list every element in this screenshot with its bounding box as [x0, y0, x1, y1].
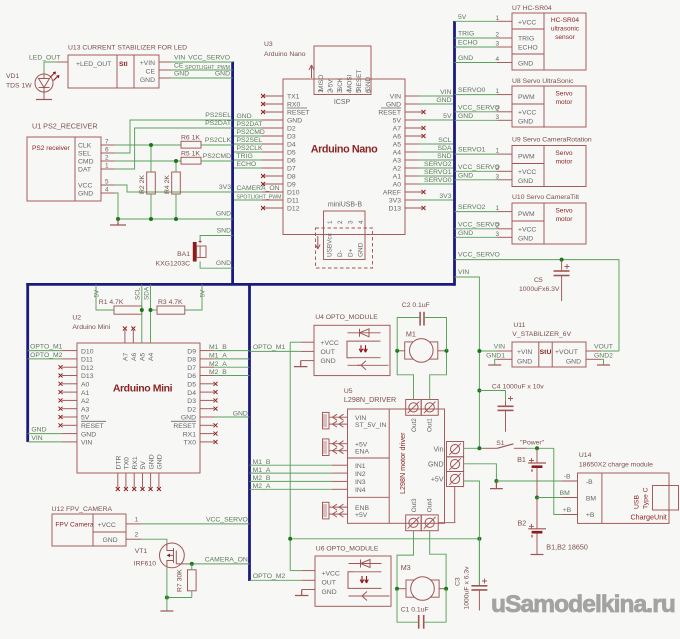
- pin D11 of U2: [62, 358, 77, 360]
- svg-text:FPV Camera: FPV Camera: [55, 522, 93, 529]
- switch S1 Power: [483, 447, 498, 449]
- svg-text:+VCC: +VCC: [518, 20, 536, 27]
- svg-text:GND: GND: [518, 178, 533, 185]
- svg-text:V_STABILIZER_6V: V_STABILIZER_6V: [512, 331, 571, 338]
- pin D9 of U3 (n.c.): [264, 183, 283, 185]
- svg-text:D8: D8: [287, 174, 296, 181]
- svg-text:KXG1203C: KXG1203C: [156, 261, 190, 268]
- svg-text:+5V: +5V: [355, 441, 368, 448]
- svg-text:4: 4: [495, 56, 499, 63]
- svg-text:SERVO2: SERVO2: [424, 161, 452, 168]
- svg-text:Servo: Servo: [555, 91, 573, 98]
- svg-text:2: 2: [328, 89, 335, 93]
- wire R3 to 5V: [185, 284, 202, 310]
- opto diode: [348, 332, 381, 334]
- svg-text:CLK: CLK: [78, 143, 92, 150]
- resistor R5 1K: [181, 157, 201, 164]
- junction B1 plus: [535, 446, 539, 450]
- svg-text:miniUSB-B: miniUSB-B: [328, 202, 363, 209]
- svg-text:HC-SR04: HC-SR04: [551, 17, 580, 24]
- svg-text:B1: B1: [517, 455, 526, 464]
- resistor R2 2K: [147, 172, 156, 194]
- pin 3: [497, 119, 512, 121]
- wire +5V screw: [464, 481, 480, 539]
- pin VIN of U13: [159, 61, 171, 63]
- svg-text:CE: CE: [146, 69, 156, 76]
- wire LED_OUT: [44, 62, 57, 74]
- svg-text:GND: GND: [566, 359, 581, 366]
- svg-text:M2_B: M2_B: [253, 475, 271, 482]
- pin D3 of U2 (n.c.): [200, 399, 214, 401]
- svg-text:C4 1000uF x 10v: C4 1000uF x 10v: [492, 384, 544, 391]
- wire VOUT: [601, 350, 619, 352]
- svg-text:GND: GND: [216, 211, 231, 218]
- wire VCC_SERVO: [455, 111, 498, 113]
- svg-text:D-: D-: [337, 250, 344, 257]
- wire from left bus: [28, 441, 62, 443]
- pin A4 of U3: [405, 151, 419, 153]
- svg-text:GND: GND: [322, 589, 337, 596]
- svg-text:D9: D9: [187, 348, 196, 355]
- pin +LED_OUT of U13: [57, 61, 68, 63]
- pin D4 of U2 (n.c.): [200, 391, 214, 393]
- junction BM: [535, 496, 539, 500]
- pin GND of U13: [159, 77, 171, 79]
- svg-text:GND: GND: [174, 71, 189, 78]
- wire SERVO0: [455, 94, 498, 96]
- svg-text:3: 3: [495, 41, 499, 48]
- svg-text:PS2CMD: PS2CMD: [203, 153, 231, 160]
- junction R4 bottom: [174, 217, 178, 221]
- svg-text:Vin: Vin: [434, 446, 444, 453]
- pin TX0 of U2 (n.c.): [125, 473, 127, 488]
- ground U4: [294, 361, 307, 367]
- svg-text:GND: GND: [436, 97, 451, 104]
- svg-text:A2: A2: [393, 166, 402, 173]
- pin TX0 of U2 (n.c.): [200, 441, 214, 443]
- junction M3 left: [395, 587, 399, 591]
- pin 2: [497, 170, 512, 172]
- svg-text:1: 1: [135, 516, 139, 523]
- pin +VOUT of U11: [586, 350, 601, 352]
- wire VCC_SERVO: [455, 228, 498, 230]
- svg-text:PS2CMD: PS2CMD: [237, 129, 265, 136]
- pin A3 of U2 (n.c.): [62, 408, 77, 410]
- svg-text:ECHO: ECHO: [458, 40, 478, 47]
- pin D11 of U3: [262, 199, 283, 201]
- svg-text:GND: GND: [458, 230, 473, 237]
- pin GND of U3: [405, 103, 419, 105]
- svg-text:1: 1: [495, 205, 499, 212]
- svg-text:R4 2K: R4 2K: [164, 175, 171, 194]
- junction R3-SDA: [149, 308, 153, 312]
- svg-text:ultrasonic: ultrasonic: [551, 26, 580, 33]
- svg-text:1: 1: [495, 88, 499, 95]
- svg-text:OPTO_M2: OPTO_M2: [253, 573, 286, 580]
- svg-text:SCK: SCK: [337, 77, 344, 91]
- svg-text:RX1: RX1: [183, 431, 196, 438]
- svg-text:GND: GND: [518, 61, 533, 68]
- svg-text:SDA: SDA: [438, 145, 452, 152]
- pin A2 of U3: [405, 167, 419, 169]
- svg-text:GND: GND: [458, 113, 473, 120]
- svg-text:TRIG: TRIG: [458, 31, 474, 38]
- svg-text:SPOTLIGHT_PWM: SPOTLIGHT_PWM: [237, 195, 282, 201]
- wire -B to U14: [496, 480, 561, 482]
- svg-text:PS2SEL: PS2SEL: [237, 137, 263, 144]
- wire from bus: [234, 127, 262, 129]
- ground: [36, 99, 52, 101]
- svg-text:A3: A3: [393, 158, 402, 165]
- svg-text:L298N_DRIVER: L298N_DRIVER: [344, 395, 396, 404]
- motor M3: [406, 580, 439, 597]
- svg-text:+VIN: +VIN: [140, 60, 155, 67]
- pin +B of U14: [561, 514, 577, 516]
- svg-text:VCC: VCC: [78, 183, 92, 190]
- wire +B drop: [554, 448, 562, 514]
- bus segment right of Arduino Mini: [248, 283, 251, 581]
- wire SERVO2: [455, 211, 498, 213]
- svg-text:D5: D5: [287, 150, 296, 157]
- svg-text:OUT: OUT: [322, 580, 336, 587]
- wire from bus: [234, 199, 262, 201]
- pin 1: [497, 153, 512, 155]
- svg-text:1: 1: [495, 15, 499, 22]
- wire VCC / 3V3: [115, 185, 233, 192]
- wire SEL / PS2SEL: [115, 120, 233, 153]
- screw terminal GND: [447, 457, 464, 472]
- USB Type C connector: [653, 486, 679, 511]
- svg-text:MOSI: MOSI: [346, 74, 353, 91]
- svg-text:GND: GND: [365, 76, 372, 91]
- pin D12 of U2 (n.c.): [62, 366, 77, 368]
- svg-text:sensor: sensor: [555, 34, 576, 41]
- pin 5V of U2 (n.c.): [142, 473, 144, 488]
- svg-text:BA1: BA1: [177, 251, 190, 258]
- svg-text:ST_5V_IN: ST_5V_IN: [355, 422, 386, 429]
- wire M2_A: [214, 366, 250, 368]
- svg-text:RX1: RX1: [132, 456, 139, 469]
- svg-text:ENA: ENA: [355, 448, 369, 455]
- pin RX1 of U2 (n.c.): [200, 433, 214, 435]
- wire M2_B to L298N: [250, 480, 333, 482]
- pin A6 of U2 (n.c.): [132, 330, 134, 343]
- svg-text:M1_A: M1_A: [209, 353, 227, 360]
- wire M1_A: [214, 358, 250, 360]
- bus segment left of Arduino Mini: [26, 283, 29, 442]
- svg-text:GND: GND: [181, 415, 196, 422]
- svg-text:1000uFx6.3V: 1000uFx6.3V: [519, 286, 560, 293]
- wire M2_B: [214, 375, 250, 377]
- svg-text:2: 2: [135, 532, 139, 539]
- wire Out3 to M3 left: [397, 531, 414, 589]
- svg-text:Out1: Out1: [427, 418, 434, 432]
- junction R2 bottom: [149, 217, 153, 221]
- svg-text:SND: SND: [217, 228, 231, 235]
- svg-text:5V: 5V: [81, 415, 90, 422]
- svg-text:U7 HC-SR04: U7 HC-SR04: [512, 5, 552, 12]
- opto diode: [349, 563, 382, 565]
- svg-text:1: 1: [318, 89, 325, 93]
- svg-text:M2_A: M2_A: [209, 361, 227, 368]
- svg-text:GND: GND: [233, 411, 248, 418]
- svg-text:+VCC: +VCC: [321, 340, 339, 347]
- svg-text:3V3: 3V3: [439, 193, 451, 200]
- wire M2_A to L298N: [250, 488, 333, 490]
- svg-text:ChargeUnit: ChargeUnit: [630, 513, 666, 522]
- junction +5V left: [288, 537, 292, 541]
- svg-text:GND: GND: [78, 191, 93, 198]
- svg-text:OPTO_M2: OPTO_M2: [30, 352, 63, 359]
- svg-text:PS2CLK: PS2CLK: [237, 145, 264, 152]
- wire C2 right: [424, 318, 447, 351]
- pin +VIN of U11: [497, 350, 512, 352]
- svg-text:GND: GND: [518, 119, 533, 126]
- svg-text:M2_B: M2_B: [209, 369, 227, 376]
- svg-text:+VCC: +VCC: [98, 522, 116, 529]
- svg-text:motor: motor: [556, 99, 574, 106]
- svg-text:SND: SND: [437, 153, 451, 160]
- wire from left bus: [28, 350, 62, 352]
- svg-text:3V3: 3V3: [389, 198, 401, 205]
- svg-text:OUT: OUT: [321, 349, 335, 356]
- svg-text:Arduino Nano: Arduino Nano: [264, 51, 306, 58]
- svg-text:TRIG: TRIG: [237, 153, 253, 160]
- wire Out4 to M3 right: [430, 531, 446, 589]
- pin A3 of U3: [405, 159, 419, 161]
- svg-text:Servo: Servo: [555, 150, 573, 157]
- svg-text:GND: GND: [358, 242, 365, 257]
- wire GND rail: [115, 193, 233, 219]
- wire OPTO_M1: [250, 350, 301, 352]
- svg-text:R3 4.7K: R3 4.7K: [158, 299, 183, 306]
- svg-text:+5V: +5V: [431, 477, 444, 484]
- wire S1 to B1/+B: [527, 447, 554, 449]
- svg-text:RESET: RESET: [81, 423, 104, 430]
- wire GND: [455, 62, 498, 64]
- pin RESET of U3 (n.c.): [405, 111, 422, 113]
- svg-text:2: 2: [495, 105, 499, 112]
- svg-text:USBVcc: USBVcc: [327, 232, 334, 257]
- svg-text:R6 1K: R6 1K: [181, 135, 200, 142]
- svg-text:LED_OUT: LED_OUT: [29, 55, 60, 62]
- junction -B: [494, 479, 498, 483]
- wire 5V: [455, 20, 498, 22]
- svg-text:U12 FPV_CAMERA: U12 FPV_CAMERA: [52, 506, 113, 513]
- svg-text:PS2SEL: PS2SEL: [205, 112, 231, 119]
- pin VIN of U3: [405, 95, 419, 97]
- pin A7 of U2 (n.c.): [124, 330, 126, 343]
- pin 2 of U1: [101, 160, 115, 162]
- svg-text:D3: D3: [187, 398, 196, 405]
- svg-text:A7: A7: [393, 126, 402, 133]
- pin D5 of U2 (n.c.): [200, 383, 214, 385]
- svg-text:Out4: Out4: [427, 498, 434, 512]
- svg-text:GND: GND: [103, 537, 118, 544]
- opto LED bracket: [347, 341, 352, 358]
- svg-text:VIN: VIN: [440, 89, 451, 96]
- svg-text:ENB: ENB: [355, 505, 369, 512]
- svg-text:OPTO_M1: OPTO_M1: [253, 344, 286, 351]
- svg-text:GND: GND: [216, 260, 231, 267]
- svg-text:CMD: CMD: [78, 159, 94, 166]
- svg-text:RESET: RESET: [356, 70, 363, 91]
- resistor R6 1K: [181, 141, 201, 148]
- pin D7 of U3: [262, 167, 283, 169]
- svg-text:6: 6: [366, 89, 373, 93]
- svg-text:3: 3: [337, 89, 344, 93]
- svg-text:+B: +B: [586, 512, 595, 519]
- svg-text:1: 1: [105, 163, 109, 170]
- pin D9 of U2: [200, 350, 214, 352]
- pin D7 of U2: [200, 366, 214, 368]
- svg-text:SERVO0: SERVO0: [424, 177, 452, 184]
- pin RX1 of U2 (n.c.): [133, 473, 135, 488]
- wire from bus: [234, 143, 262, 145]
- svg-text:-B: -B: [564, 473, 571, 480]
- svg-text:5V: 5V: [94, 289, 101, 298]
- pin A2 of U2 (n.c.): [62, 399, 77, 401]
- svg-text:DAT: DAT: [78, 167, 91, 174]
- ground GND1: [488, 364, 501, 366]
- wire buzzer GND to bus: [200, 262, 233, 269]
- pin 5V of U3: [405, 119, 419, 121]
- wire +5V to U4: [290, 341, 301, 343]
- pin 1: [497, 94, 512, 96]
- svg-text:4: 4: [105, 187, 109, 194]
- wire 5V to R1: [96, 284, 114, 310]
- svg-text:D2: D2: [187, 406, 196, 413]
- screw terminal +5V: [447, 472, 464, 487]
- svg-text:VIN: VIN: [494, 344, 505, 351]
- pin D12 of U3 (n.c.): [264, 207, 283, 209]
- wire from bus: [234, 151, 262, 153]
- bus segment left of Arduino Nano: [231, 62, 234, 285]
- svg-text:VT1: VT1: [135, 548, 148, 555]
- svg-text:+VCC: +VCC: [518, 169, 536, 176]
- wire to bus: [419, 95, 453, 97]
- pin +VCC of U4: [301, 341, 314, 343]
- link to Out4 block: [454, 487, 456, 524]
- wire M1_B: [214, 350, 250, 352]
- wire VCC_SERVO to bus: [142, 523, 250, 525]
- capacitor C5 1000uFx6.3V: [561, 260, 563, 271]
- svg-text:GND: GND: [157, 454, 164, 469]
- screw terminal Out3: [406, 515, 422, 531]
- svg-text:VCC_SERVO: VCC_SERVO: [458, 164, 500, 171]
- wire to bus: [419, 167, 453, 169]
- svg-text:A4: A4: [393, 150, 402, 157]
- pin +VCC of U6: [302, 570, 315, 572]
- svg-text:2: 2: [105, 155, 109, 162]
- pin 2 of U12: [126, 538, 142, 540]
- svg-text:C3: C3: [455, 577, 462, 586]
- pin 2: [497, 228, 512, 230]
- svg-text:SERVO2: SERVO2: [458, 204, 486, 211]
- svg-text:GND: GND: [237, 113, 252, 120]
- svg-text:PWM: PWM: [518, 94, 535, 101]
- ground VT1: [160, 610, 173, 612]
- svg-text:U2: U2: [72, 314, 81, 321]
- pin GND of U6: [302, 589, 315, 591]
- wire GND: [455, 119, 498, 121]
- wire C2 left: [397, 318, 420, 351]
- svg-text:SERVO0: SERVO0: [458, 87, 486, 94]
- svg-text:IN3: IN3: [355, 479, 366, 486]
- pin D8 of U2: [200, 358, 214, 360]
- svg-text:VIN: VIN: [174, 55, 185, 62]
- pin D4 of U3: [262, 143, 283, 145]
- wire GND screw: [464, 464, 497, 481]
- svg-text:5V: 5V: [443, 113, 452, 120]
- svg-text:IN1: IN1: [355, 463, 366, 470]
- svg-text:B2: B2: [518, 519, 527, 528]
- svg-text:MISO: MISO: [318, 75, 325, 91]
- svg-text:A2: A2: [81, 398, 90, 405]
- wire GND to bus: [171, 77, 233, 79]
- pin 5V of U2 (n.c.): [62, 416, 77, 418]
- svg-text:D13: D13: [389, 206, 402, 213]
- svg-text:PS2 receiver: PS2 receiver: [32, 145, 71, 152]
- wire CLK / PS2CLK: [115, 144, 181, 146]
- junction +5V right: [477, 537, 481, 541]
- svg-text:D12: D12: [81, 365, 94, 372]
- pin 6 of U1: [101, 152, 115, 154]
- svg-text:Out3: Out3: [411, 498, 418, 512]
- pin OUT of U6: [302, 579, 315, 581]
- wire ECHO: [455, 46, 498, 48]
- pin 4 of U7: [497, 62, 512, 64]
- svg-text:U11: U11: [513, 322, 525, 329]
- svg-text:C2 0.1uF: C2 0.1uF: [402, 302, 430, 309]
- svg-text:VIN: VIN: [31, 435, 42, 442]
- svg-text:C1 0.1uF: C1 0.1uF: [401, 607, 429, 614]
- pin 3V3 of U3: [405, 199, 419, 201]
- svg-text:3V3: 3V3: [219, 184, 231, 191]
- svg-text:StU: StU: [540, 349, 552, 356]
- svg-text:D4: D4: [187, 390, 196, 397]
- svg-text:A1: A1: [393, 174, 402, 181]
- junction C5: [560, 258, 564, 262]
- svg-text:GND: GND: [148, 454, 155, 469]
- wire from bus: [234, 191, 262, 193]
- svg-text:7: 7: [105, 139, 109, 146]
- screw terminal Vin: [447, 442, 464, 457]
- wire to VT1 drain: [142, 539, 167, 543]
- pin A0 of U2 (n.c.): [62, 383, 77, 385]
- svg-text:Arduino Nano: Arduino Nano: [311, 144, 378, 156]
- svg-text:U14: U14: [579, 452, 592, 459]
- svg-text:GND2: GND2: [594, 353, 613, 360]
- svg-text:PS2DAT: PS2DAT: [205, 120, 231, 127]
- svg-text:D7: D7: [287, 166, 296, 173]
- junction: [116, 217, 120, 221]
- wire +5V horizontal: [290, 538, 479, 540]
- svg-text:R5 1K: R5 1K: [181, 151, 200, 158]
- pin 1: [497, 211, 512, 213]
- svg-text:U3: U3: [264, 41, 273, 48]
- svg-text:RESET: RESET: [287, 110, 310, 117]
- svg-text:5V: 5V: [140, 461, 147, 470]
- svg-text:Type C: Type C: [643, 487, 650, 509]
- svg-text:M1_A: M1_A: [253, 467, 271, 474]
- svg-text:3: 3: [495, 173, 499, 180]
- svg-text:4: 4: [347, 89, 354, 93]
- svg-text:ECHO: ECHO: [237, 161, 257, 168]
- svg-text:VCC_SERVO: VCC_SERVO: [458, 252, 500, 259]
- svg-text:A6: A6: [131, 352, 138, 361]
- svg-text:C5: C5: [534, 277, 543, 284]
